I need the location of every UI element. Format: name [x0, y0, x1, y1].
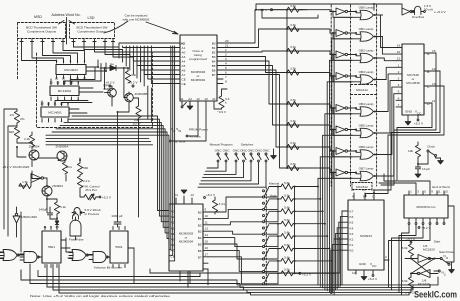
svg-text:A7: A7 — [171, 249, 175, 253]
svg-text:4: 4 — [71, 98, 73, 102]
ground switch row — [273, 149, 275, 153]
wire PROM2 bottom — [180, 271, 190, 283]
svg-text:10 μF: 10 μF — [422, 167, 430, 171]
svg-text:6: 6 — [398, 96, 400, 100]
resistor 3.3k row 0 — [287, 7, 299, 12]
svg-text:7: 7 — [225, 75, 227, 79]
svg-text:OB5 Lamp: OB5 Lamp — [359, 124, 374, 128]
svg-text:K7: K7 — [350, 210, 354, 214]
resistor 5.6k bit 7 — [269, 272, 281, 274]
svg-text:B: B — [363, 195, 365, 199]
svg-text:5.6k: 5.6k — [284, 268, 290, 272]
svg-text:24: 24 — [188, 97, 192, 101]
resistor 2.2k mid — [77, 176, 82, 188]
switch program bit 6 — [263, 264, 265, 266]
svg-text:9: 9 — [67, 102, 69, 106]
wire address word feed — [59, 18, 75, 45]
svg-text:B4: B4 — [198, 236, 202, 240]
wire program row 6 to bundle — [295, 260, 332, 262]
dashed gang line program switch column — [265, 188, 267, 286]
svg-text:10: 10 — [352, 271, 356, 275]
svg-text:CE: CE — [182, 82, 186, 86]
svg-text:13: 13 — [371, 188, 375, 192]
svg-text:3: 3 — [56, 59, 58, 63]
wire PROM1 bottom pins — [181, 101, 183, 106]
svg-text:2N3906A: 2N3906A — [56, 145, 70, 149]
svg-text:+5.2 V: +5.2 V — [102, 196, 112, 200]
diode Ge — [100, 65, 127, 70]
wire bundle left logic to PROM2 — [72, 116, 169, 211]
svg-text:MC838 6x Inv: MC838 6x Inv — [416, 205, 436, 209]
svg-text:10: 10 — [397, 50, 401, 54]
svg-text:OB7 Lamp: OB7 Lamp — [359, 167, 374, 171]
svg-text:B6: B6 — [212, 68, 216, 72]
svg-text:−0.9 V: −0.9 V — [217, 110, 227, 114]
svg-text:2: 2 — [385, 255, 387, 259]
wire CE lines — [148, 46, 172, 84]
svg-text:+5.2 V: +5.2 V — [206, 193, 216, 197]
buffer MC1820 upper — [418, 255, 428, 263]
svg-text:Manual: Manual — [269, 181, 279, 185]
svg-text:13: 13 — [190, 193, 194, 197]
svg-text:B7: B7 — [212, 73, 216, 77]
svg-text:5.6k: 5.6k — [284, 181, 290, 185]
svg-text:with one MCM6803: with one MCM6803 — [123, 18, 150, 22]
svg-text:50 mA: 50 mA — [424, 8, 434, 12]
svg-text:PROM Power: PROM Power — [189, 128, 208, 132]
gate OB0 lamp driver — [360, 10, 373, 19]
svg-text:Start: Start — [434, 240, 441, 244]
buffer row 6 — [336, 148, 345, 155]
gate OB3 lamp driver — [360, 75, 373, 84]
wire PROM2 top pins — [175, 198, 177, 204]
svg-text:1%: 1% — [10, 113, 15, 117]
svg-text:11: 11 — [351, 188, 354, 192]
svg-text:21: 21 — [212, 97, 216, 101]
transistor 2N3904 left — [29, 150, 39, 160]
svg-text:10: 10 — [60, 102, 64, 106]
svg-text:21: 21 — [225, 44, 229, 48]
wire program row 5 to bundle — [295, 248, 330, 250]
wire MC838 outputs to bus — [389, 225, 431, 295]
IC MC838 hex inverter — [404, 195, 448, 218]
svg-text:ONC: ONC — [215, 149, 223, 153]
IC MC14001 second — [41, 107, 69, 117]
switch program bit 2 — [263, 215, 265, 217]
svg-text:3.3k: 3.3k — [290, 45, 296, 49]
svg-text:A2: A2 — [171, 221, 175, 225]
wire IC interconnects — [69, 67, 106, 113]
svg-text:11: 11 — [437, 190, 440, 194]
svg-text:13: 13 — [204, 97, 208, 101]
IC 5601 first — [42, 231, 61, 263]
svg-text:2N3638B: 2N3638B — [135, 92, 148, 96]
svg-text:3: 3 — [398, 77, 400, 81]
svg-text:5: 5 — [225, 66, 227, 70]
svg-text:B0: B0 — [198, 211, 202, 215]
svg-text:11: 11 — [180, 97, 183, 101]
svg-text:programmed: programmed — [189, 57, 207, 61]
svg-text:Manual Program: Manual Program — [210, 143, 233, 147]
svg-text:LSD: LSD — [88, 16, 95, 20]
wire PROM power — [171, 106, 222, 141]
IC PROM MCM5003 upper — [180, 35, 217, 101]
wire verticals from switch boxes down to bundle — [148, 86, 152, 122]
switch program bit 1 — [263, 202, 265, 204]
svg-text:1: 1 — [41, 120, 43, 124]
svg-text:2: 2 — [398, 70, 400, 74]
buffer row 4 — [336, 105, 345, 112]
svg-text:MC1820: MC1820 — [423, 248, 435, 252]
svg-text:4: 4 — [63, 59, 65, 63]
svg-text:Start Pulse: Start Pulse — [439, 250, 454, 254]
BCD thumbwheel switch LSD (dashed box) — [70, 23, 115, 39]
lamp fast pulse — [73, 214, 79, 219]
svg-text:A4: A4 — [171, 232, 175, 236]
svg-text:1000 μF: 1000 μF — [111, 214, 123, 218]
watermark SeekIC.com — [414, 290, 457, 300]
svg-text:A0: A0 — [182, 50, 186, 54]
svg-text:5.6k: 5.6k — [284, 255, 290, 259]
svg-text:MC8243: MC8243 — [360, 234, 372, 238]
svg-text:20: 20 — [225, 39, 229, 43]
switch program bit 0 — [263, 190, 265, 192]
gate NOR second — [72, 250, 86, 261]
resistor 5.6k bit 6 — [269, 260, 281, 262]
svg-text:Ge: Ge — [110, 62, 114, 66]
svg-text:K1: K1 — [350, 243, 354, 247]
resistor 5.6k start upper — [410, 243, 412, 244]
IC 5601 second — [110, 231, 128, 263]
svg-text:5.6k: 5.6k — [402, 279, 408, 283]
svg-text:SeekIC.com: SeekIC.com — [414, 290, 457, 300]
svg-text:14: 14 — [205, 233, 209, 237]
svg-text:25 k Pot: 25 k Pot — [85, 188, 96, 192]
svg-text:4: 4 — [398, 83, 400, 87]
svg-text:Fast Pulse: Fast Pulse — [69, 238, 84, 242]
wire bundle to PROM1 address pins — [119, 43, 172, 75]
svg-text:A6: A6 — [182, 68, 186, 72]
svg-text:CE: CE — [171, 254, 175, 258]
svg-text:B2: B2 — [198, 223, 202, 227]
wire program row 4 to bundle — [295, 235, 328, 237]
svg-text:MC14023: MC14023 — [64, 68, 78, 72]
wire analog cluster — [4, 109, 84, 237]
svg-text:5: 5 — [398, 90, 400, 94]
wire program row 0 to bundle — [295, 186, 319, 188]
svg-text:B3: B3 — [212, 55, 216, 59]
lamp overflow 1.5V 50mA — [412, 6, 423, 14]
IC MC14001 first — [50, 86, 79, 96]
wire bundle PROM1 outputs to resistor rows — [223, 10, 303, 43]
svg-text:Complement Outputs: Complement Outputs — [27, 30, 57, 34]
buffer 1/6 MC1620 — [31, 174, 41, 183]
svg-text:1.5k: 1.5k — [22, 180, 28, 184]
wire PROM2 right pins — [203, 211, 208, 213]
svg-text:1: 1 — [398, 63, 400, 67]
svg-text:B4: B4 — [212, 59, 216, 63]
svg-text:12: 12 — [56, 81, 60, 85]
svg-text:14: 14 — [397, 44, 401, 48]
svg-text:13: 13 — [40, 102, 44, 106]
wire gate outputs to decoder — [381, 15, 397, 48]
svg-text:2: 2 — [57, 98, 59, 102]
IC MC14023 — [56, 65, 86, 75]
svg-text:3.3 k: 3.3 k — [219, 202, 226, 206]
wire program row 7 to bundle — [295, 272, 335, 274]
svg-text:B7: B7 — [198, 255, 202, 259]
gate OB6 lamp driver — [360, 150, 373, 159]
svg-text:5601: 5601 — [48, 245, 55, 249]
switch row manual program — [217, 153, 219, 155]
resistor 3.3k row 2 — [287, 48, 299, 53]
wire bottom-left logic — [0, 217, 134, 258]
transistor 2N3906A — [57, 151, 67, 161]
wire program row 1 to bundle — [295, 198, 321, 200]
svg-text:24: 24 — [174, 193, 178, 197]
svg-text:1: 1 — [50, 98, 52, 102]
svg-text:2N3904: 2N3904 — [52, 184, 63, 188]
svg-text:5601: 5601 — [116, 245, 123, 249]
svg-text:10k: 10k — [408, 149, 413, 153]
svg-text:5: 5 — [424, 190, 426, 194]
svg-text:11: 11 — [53, 102, 56, 106]
buffer row 1 — [336, 30, 345, 37]
svg-text:5: 5 — [77, 98, 79, 102]
switch program bit 4 — [263, 239, 265, 241]
svg-text:A3: A3 — [182, 55, 186, 59]
svg-text:5.6k: 5.6k — [284, 206, 290, 210]
svg-text:3.3k: 3.3k — [290, 23, 296, 27]
svg-text:1: 1 — [225, 48, 227, 52]
svg-text:MCM5004: MCM5004 — [191, 78, 206, 82]
svg-text:14: 14 — [432, 67, 436, 71]
wire 5.6k rail to +5.2V — [295, 187, 299, 274]
svg-text:5.6k: 5.6k — [284, 243, 290, 247]
svg-text:13: 13 — [432, 82, 436, 86]
svg-text:12: 12 — [196, 97, 200, 101]
switch PROM power — [181, 105, 183, 107]
svg-text:K6: K6 — [350, 215, 354, 219]
capacitor 10uF clock — [417, 163, 419, 165]
svg-text:+5 Volts: +5 Volts — [190, 135, 202, 139]
wire +5.2V rail vertical — [286, 10, 288, 168]
svg-text:+5.2 V: +5.2 V — [368, 277, 378, 281]
svg-text:820: 820 — [9, 130, 14, 134]
svg-text:12: 12 — [47, 102, 51, 106]
wire switch row feeds — [207, 162, 218, 168]
resistor 3.3k PROM2 — [214, 197, 216, 200]
svg-text:ONC: ONC — [223, 149, 231, 153]
svg-text:ONC: ONC — [255, 149, 263, 153]
svg-text:2.2 k: 2.2 k — [83, 179, 90, 183]
wire program row 3 to bundle — [295, 223, 325, 225]
diode CR to 5601 — [55, 221, 58, 224]
wire clock to logic — [418, 163, 428, 165]
wire auto contact bit 1 — [265, 199, 279, 210]
gate OB7 lamp driver — [360, 171, 373, 180]
gate NAND second — [93, 252, 106, 263]
svg-text:3.3k: 3.3k — [290, 162, 296, 166]
svg-text:11: 11 — [432, 99, 435, 103]
svg-text:140μF: 140μF — [39, 208, 48, 212]
resistor 100 1/2W — [136, 106, 141, 118]
svg-text:Overflow: Overflow — [412, 15, 425, 19]
svg-text:Advance Bit Counter: Advance Bit Counter — [94, 266, 122, 270]
svg-text:Clock: Clock — [427, 145, 435, 149]
buffer row 3 — [336, 73, 345, 80]
svg-text:B6: B6 — [198, 249, 202, 253]
svg-text:1/2 W: 1/2 W — [133, 122, 141, 126]
resistor 14k — [62, 162, 67, 174]
svg-text:MSD: MSD — [34, 15, 42, 19]
buffer 1/6 MC1620 down — [16, 207, 18, 213]
svg-text:3.3k: 3.3k — [290, 4, 296, 8]
svg-text:B5: B5 — [198, 243, 202, 247]
dashed boundary decode section — [18, 39, 153, 128]
svg-text:15: 15 — [205, 240, 209, 244]
svg-text:OB2 Lamp: OB2 Lamp — [359, 49, 374, 53]
wire decode verticals to PROM column — [118, 47, 120, 58]
BCD thumbwheel switch MSD (dashed box) — [18, 23, 66, 39]
svg-text:2: 2 — [225, 53, 227, 57]
svg-text:5.6k: 5.6k — [284, 231, 290, 235]
buffer row 0 — [336, 8, 345, 15]
wire MC838 bottom pins — [408, 218, 410, 222]
svg-text:+5.2 V 1/6 MC1620: +5.2 V 1/6 MC1620 — [3, 165, 30, 169]
svg-text:ONC: ONC — [248, 149, 256, 153]
wire bundle MC8243 inputs from bus — [331, 211, 342, 294]
svg-text:+5.2 V: +5.2 V — [258, 8, 268, 12]
svg-text:45k: 45k — [131, 73, 136, 77]
resistor 3.3k row 7 — [287, 165, 299, 170]
dashed boundary lamp driver column — [331, 5, 376, 186]
resistor 5.6k bit 1 — [269, 198, 281, 200]
svg-text:3.3k: 3.3k — [290, 98, 296, 102]
svg-text:9: 9 — [431, 190, 433, 194]
wire top rail — [256, 4, 413, 18]
IC MC7448 decoder — [402, 44, 424, 115]
svg-text:GND: GND — [405, 110, 413, 114]
wire PROM1 right pins — [217, 42, 223, 44]
svg-text:B0: B0 — [212, 41, 216, 45]
wire program row 2 to bundle — [295, 210, 323, 212]
svg-text:MC14001: MC14001 — [48, 111, 62, 115]
transistor MPS3638 — [108, 88, 117, 97]
svg-text:GND: GND — [359, 262, 367, 266]
resistor 1% 10k — [14, 111, 19, 123]
svg-text:16: 16 — [205, 246, 209, 250]
wire auto contact bit 7 — [265, 273, 279, 284]
dashed box MC1812 — [352, 183, 372, 190]
svg-text:OB6 Lamp: OB6 Lamp — [359, 145, 374, 149]
svg-text:A6: A6 — [171, 243, 175, 247]
svg-text:2N3904: 2N3904 — [29, 145, 40, 149]
resistor 5.6k bit 5 — [269, 248, 281, 250]
svg-text:12: 12 — [83, 77, 87, 81]
transistor 2N3904 lower — [42, 186, 52, 196]
svg-text:CE: CE — [182, 77, 186, 81]
wire auto contact bit 5 — [265, 249, 279, 260]
resistor 45k — [127, 68, 129, 71]
resistor 820 — [14, 127, 19, 139]
lamp In Process — [72, 208, 82, 216]
wire decode mesh verticals — [22, 44, 57, 64]
svg-text:3.3k: 3.3k — [290, 119, 296, 123]
svg-text:3: 3 — [64, 98, 66, 102]
svg-text:5: 5 — [67, 120, 69, 124]
svg-text:1: 1 — [77, 59, 79, 63]
svg-text:+5.2 V: +5.2 V — [414, 122, 424, 126]
resistor 5.6k start lower — [410, 273, 412, 275]
wire fan PROM2 outputs to program switches — [208, 197, 263, 212]
switch start — [442, 259, 448, 264]
resistor 5.6k bit 4 — [269, 235, 281, 237]
resistor 3.3k row 5 — [287, 122, 299, 127]
ground clock switch — [438, 158, 444, 164]
svg-text:Address Word No.: Address Word No. — [51, 13, 80, 17]
gate NAND bottom-left — [24, 252, 37, 263]
resistor 5.1k — [54, 202, 59, 214]
gate OB1 lamp driver — [360, 32, 373, 41]
svg-text:2: 2 — [84, 59, 86, 63]
buffer row 5 — [336, 126, 345, 133]
svg-text:11: 11 — [43, 225, 46, 229]
svg-text:A5: A5 — [182, 64, 186, 68]
svg-text:1: 1 — [410, 190, 412, 194]
wire bundle program rows up to lamp gates — [317, 178, 319, 285]
wire auto contact bit 6 — [265, 261, 279, 272]
gate AND vertical fast pulse — [70, 220, 81, 236]
svg-text:4: 4 — [225, 62, 227, 66]
svg-text:B5: B5 — [212, 64, 216, 68]
svg-text:3: 3 — [54, 120, 56, 124]
svg-text:A0: A0 — [171, 210, 175, 214]
resistor 3.3k row 6 — [287, 144, 299, 149]
wire transistor cluster — [105, 68, 139, 107]
ground PROM2 top — [183, 196, 185, 204]
wire MC8243 top pins — [354, 193, 374, 200]
svg-text:End of Word: End of Word — [432, 185, 449, 189]
IC PROM MCM5003 lower — [169, 204, 203, 271]
wire start latch cross coupling — [405, 259, 440, 274]
svg-text:10: 10 — [205, 214, 209, 218]
svg-text:OB0 Lamp: OB0 Lamp — [359, 6, 374, 10]
svg-text:2.2k: 2.2k — [24, 137, 30, 141]
svg-text:A2: A2 — [182, 41, 186, 45]
svg-text:MC1820: MC1820 — [418, 282, 430, 286]
svg-text:Note: Use +5.2 Volts on all: Note: Use +5.2 Volts on all logic device… — [30, 294, 170, 298]
svg-text:5.1k: 5.1k — [60, 205, 66, 209]
switch program bit 3 — [263, 227, 265, 229]
svg-text:K5: K5 — [350, 221, 354, 225]
wire decoder left pins — [396, 47, 402, 49]
svg-text:ONC: ONC — [240, 149, 248, 153]
svg-text:4: 4 — [61, 120, 63, 124]
svg-text:14 k: 14 k — [66, 165, 72, 169]
svg-text:11: 11 — [63, 81, 66, 85]
svg-text:1/6MC1620: 1/6MC1620 — [21, 215, 37, 219]
switch program bit 5 — [263, 252, 265, 254]
svg-text:17: 17 — [205, 252, 209, 256]
svg-text:5.6k: 5.6k — [402, 246, 408, 250]
resistor 3.3k row 4 — [287, 101, 299, 106]
resistor 3.3k row 3 — [287, 70, 299, 75]
svg-text:3: 3 — [417, 190, 419, 194]
svg-text:13: 13 — [49, 81, 53, 85]
svg-text:K2: K2 — [350, 238, 354, 242]
resistor 3.3k row 1 — [287, 26, 299, 31]
